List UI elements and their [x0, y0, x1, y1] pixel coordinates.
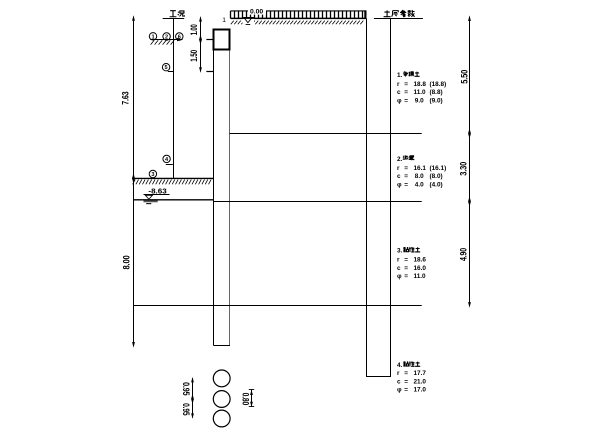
- svg-text:0.95: 0.95: [181, 403, 191, 416]
- svg-text:r=18.8(18.8): r=18.8(18.8): [397, 81, 446, 88]
- svg-text:1.00: 1.00: [189, 24, 199, 35]
- stage circle 1: [149, 33, 156, 41]
- stage circle 3: [149, 170, 156, 178]
- soil layer 1 text: [397, 71, 446, 104]
- svg-text:φ=9.0(9.0): φ=9.0(9.0): [397, 97, 443, 104]
- leader line from title: [173, 19, 175, 179]
- heading 土层参数: [384, 10, 391, 16]
- svg-text:1: 1: [222, 17, 226, 24]
- dimension column right: 5.50 / 3.30 / 4.90: [458, 15, 471, 307]
- svg-text:4.: 4.: [397, 362, 403, 369]
- surcharge load ticks: [231, 11, 363, 19]
- water table line: [134, 199, 214, 201]
- pile P1 right edge: [229, 51, 231, 346]
- surcharge load top line: [231, 10, 367, 12]
- svg-text:5.50: 5.50: [459, 70, 469, 84]
- svg-text:3: 3: [151, 172, 154, 178]
- svg-text:0.95: 0.95: [181, 382, 191, 396]
- svg-text:5: 5: [165, 65, 168, 71]
- pile P1 bottom: [214, 345, 231, 347]
- svg-text:1.50: 1.50: [189, 50, 199, 62]
- surcharge load end post: [364, 10, 366, 18]
- ground line: [231, 17, 367, 19]
- soil layer 3 text: [397, 247, 426, 280]
- svg-text:3.30: 3.30: [459, 162, 469, 176]
- svg-text:r=16.1(16.1): r=16.1(16.1): [397, 165, 446, 172]
- layer boundary 2: [214, 201, 422, 203]
- pile P2 left edge: [366, 19, 368, 378]
- svg-text:2.: 2.: [397, 156, 403, 163]
- dimension 0.80: [241, 390, 255, 407]
- dimension 8.00: [122, 178, 135, 348]
- svg-text:8.00: 8.00: [122, 255, 132, 269]
- ground hatching: [231, 21, 363, 25]
- elevation 0.00: [248, 7, 266, 14]
- svg-text:φ=4.0(4.0): φ=4.0(4.0): [397, 181, 443, 188]
- pile P2 right edge: [390, 19, 392, 378]
- svg-text:c=8.0(8.0): c=8.0(8.0): [397, 173, 443, 180]
- soil layer 2 text: [397, 155, 446, 188]
- stage circle 5: [162, 63, 169, 71]
- water level symbol: [145, 195, 152, 199]
- stage circle 6: [176, 33, 183, 41]
- svg-text:7.63: 7.63: [120, 91, 130, 105]
- stage-1 level tick with hatches and arrow: [150, 38, 183, 45]
- pile cap: [214, 30, 230, 50]
- layer boundary 1: [230, 133, 422, 135]
- tick at level of stage 5: [168, 71, 174, 73]
- tick at level of stage 4: [166, 164, 173, 166]
- dimension 0.95/0.95: [181, 377, 194, 419]
- stage circle 2: [163, 33, 170, 41]
- svg-text:1.: 1.: [397, 72, 403, 79]
- pile P1 left edge: [213, 51, 215, 346]
- svg-text:3.: 3.: [397, 247, 403, 254]
- svg-text:c=11.0(8.8): c=11.0(8.8): [397, 89, 443, 96]
- heading underline: [374, 18, 423, 20]
- section circle middle: [213, 391, 230, 408]
- section circle bottom: [213, 410, 230, 427]
- section circle top: [213, 370, 230, 387]
- soil layer 4 text: [397, 361, 426, 393]
- title 工况: [170, 11, 177, 17]
- layer boundary 3: [134, 305, 422, 307]
- title underline: [163, 18, 185, 20]
- stage circle 4: [163, 155, 170, 163]
- excavation base hatching: [133, 180, 212, 185]
- pile P2 bottom: [366, 376, 391, 378]
- excavation base line: [132, 177, 214, 179]
- dimension 1.00 / 1.50: [189, 16, 213, 73]
- svg-text:0.80: 0.80: [241, 393, 251, 406]
- svg-text:0.00: 0.00: [250, 8, 263, 15]
- svg-text:4.90: 4.90: [458, 248, 468, 261]
- elevation symbol: [242, 17, 254, 19]
- dimension 7.63: [120, 15, 135, 184]
